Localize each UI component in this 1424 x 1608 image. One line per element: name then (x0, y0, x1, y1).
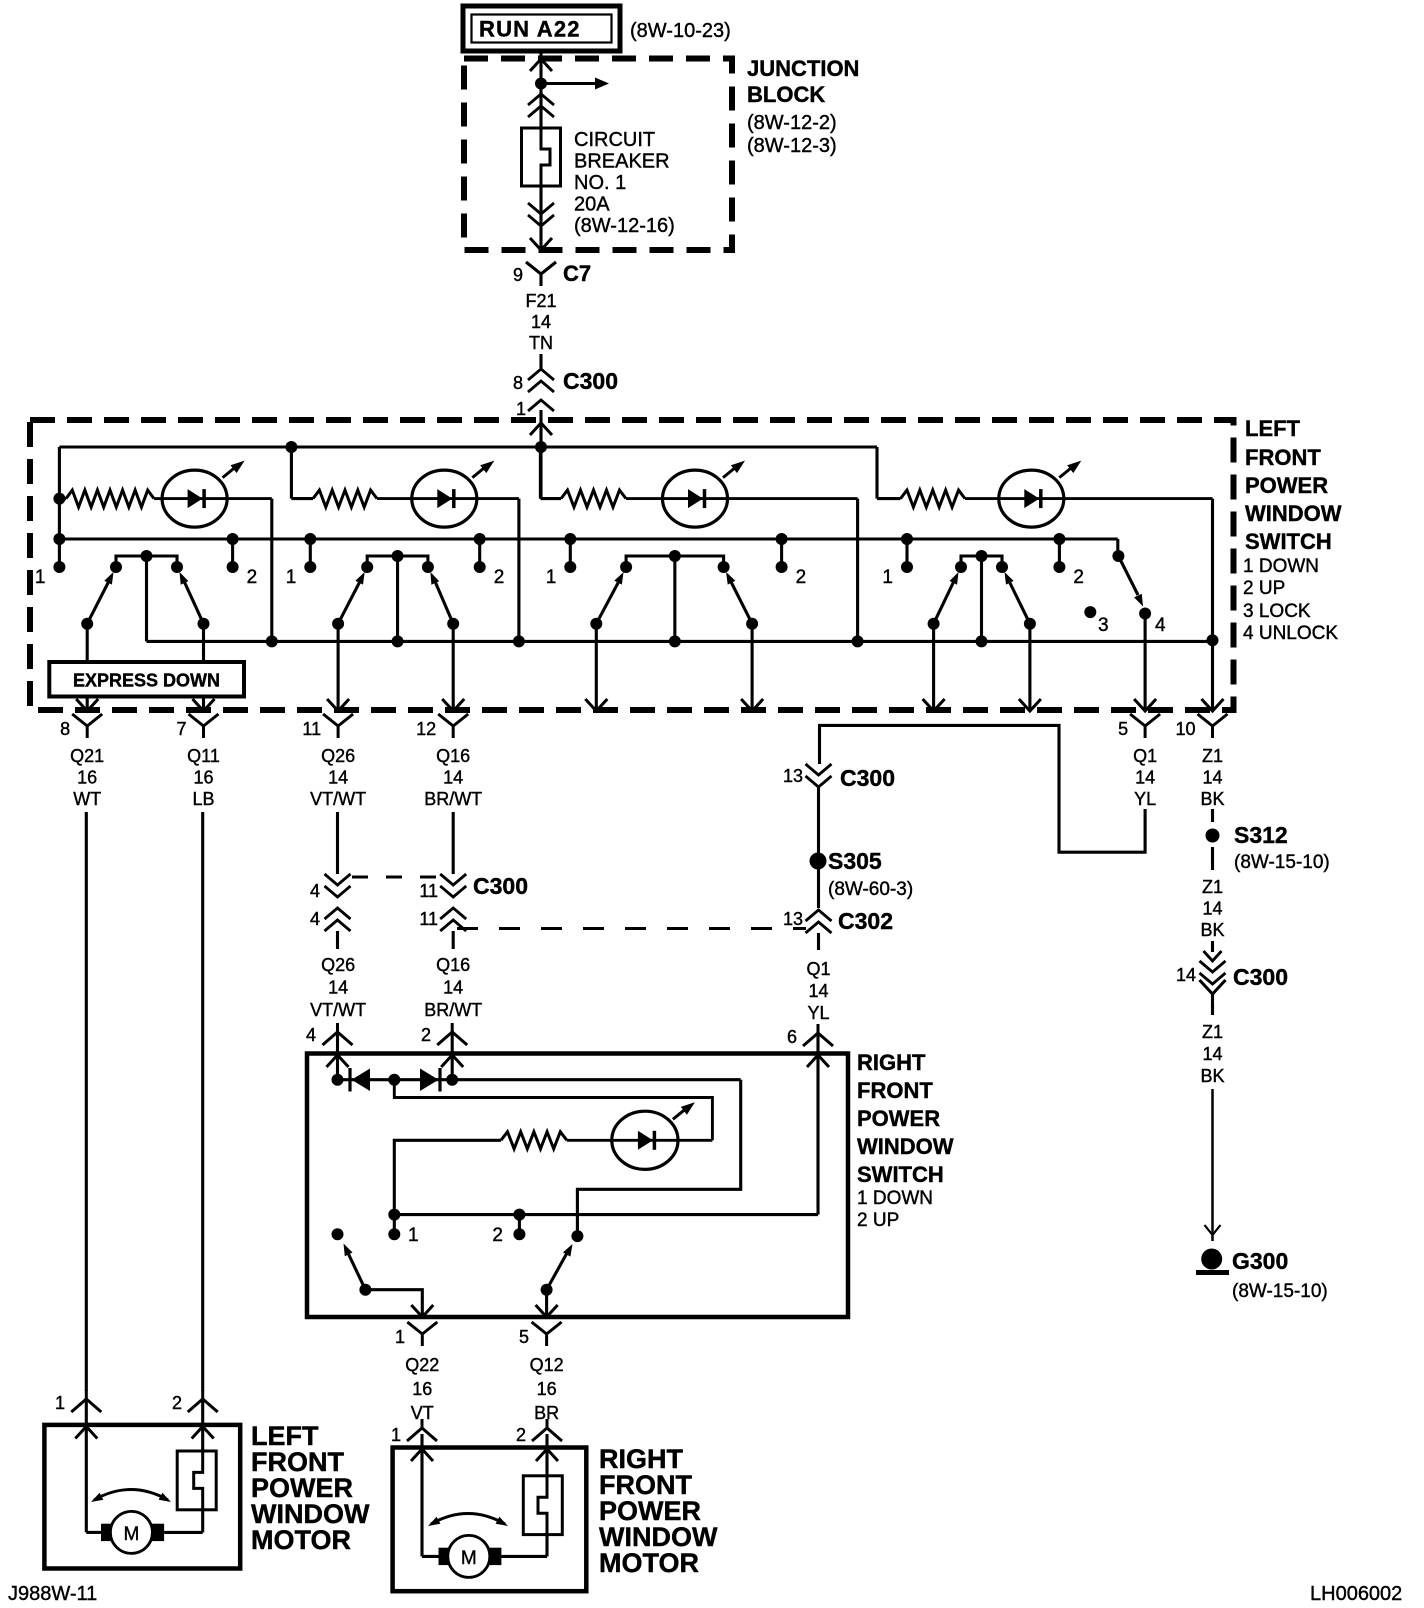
svg-text:POWER: POWER (857, 1106, 940, 1131)
svg-text:4 UNLOCK: 4 UNLOCK (1243, 623, 1338, 644)
svg-text:BK: BK (1200, 789, 1224, 809)
rotation arrows left motor (94, 1490, 168, 1501)
switch module 2: feed wire (290, 447, 293, 499)
svg-text:20A: 20A (574, 194, 610, 216)
svg-text:Z1: Z1 (1202, 1022, 1223, 1042)
svg-text:13: 13 (783, 766, 803, 786)
node: module 1 bus2 junction (53, 533, 65, 545)
svg-text:14: 14 (1176, 965, 1196, 985)
splice S312 (1206, 829, 1220, 843)
svg-text:C302: C302 (838, 908, 893, 934)
svg-text:1 DOWN: 1 DOWN (1243, 556, 1319, 577)
svg-text:4: 4 (310, 909, 320, 929)
svg-text:1: 1 (395, 1327, 405, 1347)
node: pin 4 on diode row (332, 1074, 344, 1086)
circuit breaker NO. 1 20A (522, 128, 561, 186)
svg-text:BLOCK: BLOCK (747, 82, 825, 107)
svg-text:16: 16 (77, 768, 97, 788)
rocker switch module 2: fixed contacts and bar (367, 556, 428, 567)
svg-text:14: 14 (328, 978, 348, 998)
resistor: module 4 illumination (877, 497, 901, 500)
svg-text:BR/WT: BR/WT (424, 789, 482, 809)
connector pin 1 into left motor... right motor (407, 1419, 437, 1441)
wire: switch output at x=596.3 (595, 624, 598, 710)
svg-text:C300: C300 (840, 765, 895, 791)
contact 1 of right switch (388, 1209, 400, 1221)
contact 2 of right switch (513, 1209, 525, 1221)
connector pin 6 into right switch (803, 1024, 833, 1046)
svg-text:Q16: Q16 (436, 746, 470, 766)
diode D1 (left pointing) (348, 1068, 351, 1092)
fixed contact from pin 4 (332, 1228, 344, 1240)
svg-text:8: 8 (513, 373, 523, 393)
svg-text:11: 11 (302, 719, 321, 739)
svg-text:RUN A22: RUN A22 (479, 17, 581, 42)
svg-text:14: 14 (808, 981, 828, 1001)
svg-text:Q16: Q16 (436, 955, 470, 975)
right front power window switch box (307, 1054, 848, 1318)
switch arm down (pin 1) (359, 1284, 371, 1296)
wire: switch output at x=752.1 (751, 624, 754, 710)
svg-text:JUNCTION: JUNCTION (747, 56, 859, 81)
svg-text:M: M (461, 1548, 477, 1569)
svg-text:1: 1 (55, 1393, 65, 1413)
svg-text:Q12: Q12 (530, 1355, 564, 1375)
svg-text:NO. 1: NO. 1 (574, 172, 626, 194)
wire: module 4 LED output (1062, 497, 1212, 500)
svg-text:Q11: Q11 (187, 746, 220, 766)
node: module 4 LED output on lower bus (1207, 634, 1219, 646)
svg-text:8: 8 (60, 719, 70, 739)
svg-text:SWITCH: SWITCH (857, 1162, 944, 1187)
wire to splice S305 (817, 787, 820, 908)
wire: arm pivot to pin 5 exit (545, 1290, 548, 1317)
arrowheads at right switch bottom (411, 1305, 433, 1317)
svg-text:Q1: Q1 (806, 959, 830, 979)
svg-text:4: 4 (306, 1025, 316, 1045)
connector pin 2 into right switch (437, 1023, 467, 1045)
wire: lower bus (147, 640, 1213, 643)
node: diode center tap (388, 1074, 400, 1086)
switch arm up (pin 5) (541, 1284, 553, 1296)
svg-text:C300: C300 (473, 873, 528, 899)
arrowhead at switch box bottom x=933.6 (923, 699, 945, 711)
wire: switch output at x=453.2 (452, 624, 455, 710)
svg-text:M: M (123, 1524, 139, 1545)
wire Q16 14 BR/WT lower (452, 931, 455, 949)
wire: contact 4 to pin 5 (1144, 614, 1147, 711)
svg-text:2: 2 (172, 1393, 182, 1413)
wire: rocker 2 common to lower bus (396, 556, 399, 641)
circuit breaker inside left motor (177, 1451, 216, 1510)
svg-text:Z1: Z1 (1202, 877, 1223, 897)
wire: arm to express down (pin 8) (86, 624, 89, 662)
wire: switch output at x=933.6 (932, 624, 935, 710)
svg-text:Q26: Q26 (321, 746, 355, 766)
svg-text:6: 6 (787, 1027, 797, 1047)
svg-text:Q26: Q26 (321, 955, 355, 975)
svg-text:1: 1 (35, 567, 46, 588)
switch arm 2 (up side) (447, 618, 459, 630)
wire: motor pin 2 (201, 1425, 204, 1451)
svg-text:1: 1 (882, 567, 893, 588)
LED: module 4 switch illumination lamp (999, 470, 1064, 527)
svg-text:5: 5 (519, 1327, 529, 1347)
connector chevrons below breaker (528, 215, 554, 226)
svg-text:J988W-11: J988W-11 (8, 1583, 97, 1605)
rocker switch module 3: fixed contacts and bar (626, 556, 724, 567)
rocker switch module 1: fixed contacts and bar (116, 556, 177, 567)
svg-text:POWER: POWER (1245, 473, 1328, 498)
svg-text:12: 12 (416, 719, 436, 739)
svg-text:5: 5 (1118, 719, 1128, 739)
connector C300 pin 13 (806, 776, 832, 787)
connector pin 5 below right switch (532, 1322, 562, 1346)
wire: RUN A22 feed into junction block (539, 51, 542, 128)
node: feed junction dot (535, 78, 547, 90)
motor M right (439, 1548, 454, 1565)
svg-text:1: 1 (391, 1425, 401, 1445)
resistor: module 1 illumination (59, 497, 66, 500)
svg-text:7: 7 (176, 719, 186, 739)
connector C300 pin 4 lower half (325, 908, 351, 919)
switch arm 2 (down side) (332, 618, 344, 630)
svg-text:2 UP: 2 UP (857, 1210, 899, 1231)
wire: feed into switch box (539, 420, 542, 499)
node: lock selector pivot (1112, 550, 1124, 562)
EXPRESS DOWN box (49, 662, 244, 697)
svg-text:14: 14 (1202, 1044, 1222, 1064)
svg-text:3: 3 (1098, 615, 1109, 636)
contact 3 (lock) (1084, 606, 1096, 618)
wire: module 1 LED output (226, 497, 272, 500)
wire: motor pin 1 (85, 1425, 88, 1533)
svg-text:14: 14 (443, 978, 463, 998)
wire: switch output at x=338.1 (337, 624, 340, 710)
ground G300 (1201, 1249, 1222, 1270)
svg-text:13: 13 (783, 909, 803, 929)
diode D2 (right pointing) (420, 1069, 439, 1092)
arrowhead at switch box bottom x=87.2 (76, 699, 98, 711)
node: module 2 tap (285, 441, 297, 453)
svg-text:LB: LB (192, 789, 214, 809)
svg-text:Q21: Q21 (70, 746, 104, 766)
wire: rocker 3 common to lower bus (673, 556, 676, 641)
svg-text:1: 1 (408, 1225, 419, 1246)
connector pin 11 of left front switch (323, 714, 353, 738)
svg-text:(8W-12-3): (8W-12-3) (747, 135, 837, 157)
svg-text:BK: BK (1200, 1066, 1224, 1086)
wire: switch output at x=1029.9 (1028, 624, 1031, 710)
svg-text:2: 2 (247, 567, 258, 588)
switch arm 1 (up side) (198, 618, 210, 630)
node: module 3 LED output on lower bus (852, 635, 864, 647)
arrowhead at junction block boundary (530, 59, 552, 71)
svg-text:Z1: Z1 (1202, 746, 1223, 766)
svg-text:4: 4 (310, 881, 320, 901)
svg-text:TN: TN (529, 333, 553, 353)
fixed contact from diode row (571, 1230, 583, 1242)
svg-text:2: 2 (492, 1225, 503, 1246)
svg-text:16: 16 (537, 1379, 557, 1399)
left front power window motor box (44, 1425, 240, 1569)
svg-text:14: 14 (443, 768, 463, 788)
connector C302 face line (457, 927, 806, 930)
svg-text:14: 14 (1135, 768, 1155, 788)
wire: module 2 LED output (475, 497, 519, 500)
svg-text:YL: YL (1134, 789, 1156, 809)
svg-text:16: 16 (412, 1379, 432, 1399)
contact 4 (unlock) (1139, 608, 1151, 620)
arrowhead at junction block bottom boundary (530, 238, 552, 250)
connector pin 4 into right switch (323, 1023, 353, 1045)
contact 2 of module 2 (478, 539, 481, 567)
arrowhead at switch box bottom x=1145.1 (1134, 699, 1156, 711)
wire Z1 14 BK lower (1211, 1005, 1214, 1015)
power feed label box RUN A22 (463, 6, 620, 51)
svg-text:Q1: Q1 (1133, 746, 1157, 766)
wire: module 3 LED output (726, 497, 858, 500)
contact 2 of module 3 (780, 539, 783, 567)
svg-text:BR/WT: BR/WT (424, 1000, 482, 1020)
resistor: module 2 illumination (291, 497, 313, 500)
diode row wire (338, 1078, 741, 1081)
switch arm 4 (up side) (1024, 618, 1036, 630)
svg-text:2: 2 (1073, 567, 1084, 588)
svg-text:14: 14 (328, 768, 348, 788)
svg-text:VT/WT: VT/WT (310, 789, 366, 809)
wire: rocker 4 common to lower bus (980, 556, 983, 641)
svg-text:WINDOW: WINDOW (1245, 501, 1342, 526)
connector C300 pin 11 upper half (440, 886, 466, 897)
connector C302 pin 13 (806, 910, 832, 921)
contact bus wire (394, 1213, 818, 1216)
switch module 3: feed wire (539, 447, 542, 499)
rocker switch module 4: fixed contacts and bar (961, 556, 1002, 567)
resistor: module 3 illumination (540, 497, 561, 500)
contact 2 of module 1 (231, 539, 234, 567)
left front power window switch dashed box (30, 420, 1234, 710)
node: module 2 LED output on lower bus (513, 635, 525, 647)
LED: module 2 switch illumination lamp (412, 470, 477, 527)
svg-text:C300: C300 (563, 368, 618, 394)
svg-text:S305: S305 (828, 848, 882, 874)
connector pin 2 into right motor (532, 1419, 562, 1441)
arrowhead at switch box bottom x=203.5 (193, 699, 215, 711)
circuit breaker inside right motor (523, 1476, 562, 1535)
contact 1 of module 3 (569, 539, 572, 567)
svg-text:9: 9 (513, 265, 523, 285)
switch module 4: feed wire (875, 447, 878, 499)
node: feed to top bus (535, 441, 547, 453)
svg-text:2: 2 (516, 1425, 526, 1445)
svg-text:(8W-12-2): (8W-12-2) (747, 112, 837, 134)
svg-text:4: 4 (1155, 615, 1166, 636)
LED: module 1 switch illumination lamp (162, 470, 227, 527)
wire: top bus (59, 445, 877, 448)
svg-text:C7: C7 (563, 261, 591, 286)
svg-text:14: 14 (1202, 899, 1222, 919)
svg-text:16: 16 (193, 768, 213, 788)
svg-text:RIGHT: RIGHT (857, 1050, 926, 1075)
svg-text:Q22: Q22 (405, 1355, 439, 1375)
node: module 1 LED output on lower bus (266, 635, 278, 647)
arrowhead at switch box bottom x=1029.9 (1019, 699, 1041, 711)
contact 1 of module 1 (53, 561, 65, 573)
svg-text:EXPRESS DOWN: EXPRESS DOWN (73, 671, 220, 691)
svg-text:2: 2 (796, 567, 807, 588)
wire: lower bus to pin 10 (1211, 641, 1214, 710)
svg-text:2: 2 (494, 567, 505, 588)
wire: diode tap to LED cathode loop (394, 1080, 712, 1141)
contact 1 of module 4 (905, 539, 908, 567)
connector pin 1 below right switch (407, 1322, 437, 1346)
wire: branch arrow to other circuits (541, 82, 597, 85)
contact 2 of module 4 (1058, 539, 1061, 567)
splice S305 (810, 853, 827, 870)
svg-text:1: 1 (546, 567, 557, 588)
svg-text:2 UP: 2 UP (1243, 578, 1285, 599)
connector chevrons above circuit breaker (528, 94, 554, 105)
switch arm 3 (up side) (746, 618, 758, 630)
switch arm: lock/unlock to contact 4 (1118, 556, 1138, 595)
svg-text:BK: BK (1200, 920, 1224, 940)
svg-text:C300: C300 (1233, 964, 1288, 990)
svg-text:VT/WT: VT/WT (310, 1000, 366, 1020)
motor M left (101, 1524, 116, 1541)
svg-text:FRONT: FRONT (857, 1078, 933, 1103)
connector pin 7 of left front switch (189, 714, 219, 738)
svg-text:YL: YL (807, 1003, 829, 1023)
svg-text:(8W-60-3): (8W-60-3) (828, 879, 913, 900)
svg-text:LEFT: LEFT (1245, 416, 1301, 441)
connector pin 5 of left front switch (1130, 714, 1160, 738)
svg-text:FRONT: FRONT (1245, 445, 1321, 470)
switch arm 1 (down side) (81, 618, 93, 630)
svg-text:11: 11 (419, 909, 438, 929)
connector pin 2 into left motor (188, 1390, 218, 1412)
wire: arm through express down (pin 7) (202, 624, 205, 662)
LED: right switch illumination lamp (612, 1111, 678, 1169)
wire: breaker to connector C7 (539, 186, 542, 250)
node: pin 2 on diode row (446, 1074, 458, 1086)
switch arm 3 (down side) (590, 618, 602, 630)
wire: arm pivot to pin 1 exit (365, 1290, 422, 1317)
connector pin 1 into left motor (71, 1390, 101, 1412)
arrowhead at switch box bottom x=453.2 (442, 699, 464, 711)
svg-text:3 LOCK: 3 LOCK (1243, 601, 1311, 622)
switch module 1: feed wire (58, 447, 61, 567)
svg-text:11: 11 (419, 881, 438, 901)
svg-text:MOTOR: MOTOR (251, 1525, 351, 1555)
right front power window motor box (393, 1448, 587, 1592)
svg-text:(8W-10-23): (8W-10-23) (630, 20, 731, 42)
connector pin 8 of left front switch (72, 714, 102, 738)
svg-text:MOTOR: MOTOR (599, 1548, 699, 1578)
arrowhead at switch box bottom x=1212.5 (1202, 699, 1224, 711)
svg-text:1: 1 (286, 567, 297, 588)
wire Q1 14 YL to right switch (817, 933, 820, 950)
connector C300 face line (352, 876, 440, 879)
resistor: right switch illumination (394, 1140, 501, 1214)
arrowhead at switch box bottom x=338.1 (327, 699, 349, 711)
connector C300 pin 11 lower half (440, 908, 466, 919)
svg-text:(8W-15-10): (8W-15-10) (1232, 1281, 1328, 1302)
switch arm 4 (down side) (928, 618, 940, 630)
svg-text:G300: G300 (1232, 1248, 1288, 1274)
arrowhead at switch box bottom x=752.1 (741, 699, 763, 711)
svg-text:(8W-15-10): (8W-15-10) (1234, 852, 1330, 873)
rotation arrows right motor (431, 1514, 505, 1525)
wire: right motor pin 1 (420, 1448, 423, 1557)
svg-text:10: 10 (1175, 719, 1195, 739)
svg-text:BREAKER: BREAKER (574, 151, 670, 173)
node: module 1 resistor tap (53, 493, 65, 505)
svg-text:2: 2 (421, 1025, 431, 1045)
wire: right motor pin 2 (545, 1448, 548, 1476)
svg-text:SWITCH: SWITCH (1245, 529, 1332, 554)
svg-text:LH006002: LH006002 (1310, 1583, 1402, 1605)
svg-text:F21: F21 (525, 291, 556, 311)
LED: module 3 switch illumination lamp (663, 470, 728, 527)
svg-text:CIRCUIT: CIRCUIT (574, 129, 655, 151)
arrowhead at switch box bottom x=596.3 (585, 699, 607, 711)
wire: rocker 1 common to lower bus (145, 556, 148, 641)
connector C300 pin 14 (1211, 941, 1214, 952)
connector pin 10 of left front switch (1198, 714, 1228, 738)
connector pin 12 of left front switch (438, 714, 468, 738)
svg-text:1: 1 (516, 399, 526, 419)
wire: diode row right leg to up contact (577, 1080, 740, 1236)
contact 1 of module 2 (309, 539, 312, 567)
svg-text:WT: WT (73, 789, 101, 809)
wire Q26 14 VT/WT lower (336, 931, 339, 949)
svg-text:WINDOW: WINDOW (857, 1134, 954, 1159)
svg-text:1 DOWN: 1 DOWN (857, 1188, 933, 1209)
svg-text:14: 14 (531, 312, 551, 332)
lock/unlock selector: bus2 (59, 538, 1117, 541)
junction block dashed box (464, 59, 732, 251)
svg-text:(8W-12-16): (8W-12-16) (574, 215, 675, 237)
svg-text:S312: S312 (1234, 822, 1288, 848)
svg-text:14: 14 (1202, 768, 1222, 788)
connector C300 pin 4 upper half (325, 886, 351, 897)
